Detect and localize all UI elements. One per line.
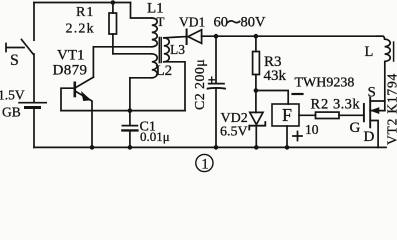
svg-text:1: 1	[201, 156, 209, 172]
svg-text:60: 60	[214, 15, 229, 31]
svg-text:S: S	[368, 85, 376, 101]
wire R1 bottom to L2 top	[113, 53, 152, 55]
plus sign C2	[209, 77, 215, 83]
wire R3 node to F block minus input	[256, 91, 288, 105]
svg-text:L3: L3	[170, 42, 185, 57]
capacitor C2	[215, 36, 217, 83]
node base/L2/C1	[128, 108, 133, 113]
wire L3 bottom down to base node	[164, 62, 185, 111]
wire bottom rail	[34, 146, 386, 148]
svg-text:R2: R2	[311, 97, 330, 113]
svg-text:80V: 80V	[241, 15, 267, 31]
node F-rail	[285, 145, 290, 150]
svg-text:F: F	[282, 105, 292, 125]
wire output rail 60~80V	[202, 35, 383, 37]
svg-text:D: D	[364, 129, 375, 145]
svg-text:S: S	[10, 52, 19, 69]
svg-text:6.5V: 6.5V	[220, 125, 248, 140]
wire base node line	[61, 110, 185, 112]
svg-text:0.01μ: 0.01μ	[140, 129, 170, 144]
svg-text:TWH9238: TWH9238	[295, 76, 355, 91]
node C2-rail	[214, 145, 219, 150]
circled figure number 1	[196, 154, 213, 171]
capacitor C1	[129, 111, 131, 125]
svg-text:G: G	[350, 120, 361, 136]
transformer core	[159, 38, 161, 63]
svg-text:VT2 K1794: VT2 K1794	[385, 73, 397, 145]
inductor L1	[152, 18, 157, 47]
minus label F input	[293, 93, 303, 95]
wire L2 bottom	[130, 78, 152, 111]
node C1-rail	[128, 145, 133, 150]
IC block F (TWH9238)	[272, 104, 299, 126]
wire F block ground	[286, 126, 288, 147]
switch S	[6, 40, 34, 103]
svg-text:T: T	[157, 14, 165, 29]
svg-text:2.2k: 2.2k	[66, 22, 95, 37]
resistor R3	[255, 36, 257, 51]
svg-text:3.3k: 3.3k	[333, 97, 360, 113]
wire battery to bottom rail	[33, 109, 35, 147]
svg-text:L: L	[365, 44, 374, 60]
wire L1 bottom to VT1 collector	[93, 47, 151, 77]
inductor L	[377, 36, 390, 61]
svg-text:VD1: VD1	[179, 15, 205, 30]
wire L3 top to VD1	[164, 37, 186, 38]
inductor L2	[152, 54, 157, 78]
plus label F	[293, 132, 302, 141]
wire R2 to gate	[339, 114, 364, 116]
wire top rail	[34, 2, 131, 4]
node R1 top	[111, 0, 116, 5]
svg-text:10: 10	[305, 122, 319, 137]
svg-text:D879: D879	[53, 63, 88, 79]
svg-text:R1: R1	[76, 5, 94, 20]
zener diode VD2	[255, 91, 257, 113]
svg-text:L2: L2	[156, 63, 173, 79]
resistor R2	[316, 112, 340, 118]
transistor VT1	[74, 83, 77, 96]
node emitter-rail	[90, 145, 95, 150]
svg-text:GB: GB	[2, 105, 21, 120]
wire F output to R2	[299, 114, 316, 116]
node VD2-rail	[254, 145, 259, 150]
wire top rail corner to L1	[131, 3, 152, 19]
inductor L3	[164, 38, 169, 62]
battery GB	[19, 102, 46, 104]
wire source to inductor L	[384, 61, 386, 110]
svg-text:C2 200μ: C2 200μ	[193, 59, 208, 110]
svg-text:VT1: VT1	[57, 48, 85, 64]
wire left vertical to switch	[33, 3, 35, 41]
svg-text:1.5V: 1.5V	[0, 88, 25, 103]
inductor L core	[393, 42, 395, 61]
svg-text:43k: 43k	[264, 68, 287, 84]
transistor VT2 (MOSFET)	[363, 104, 365, 121]
resistor R1	[112, 3, 114, 14]
diode VD1	[186, 30, 188, 45]
